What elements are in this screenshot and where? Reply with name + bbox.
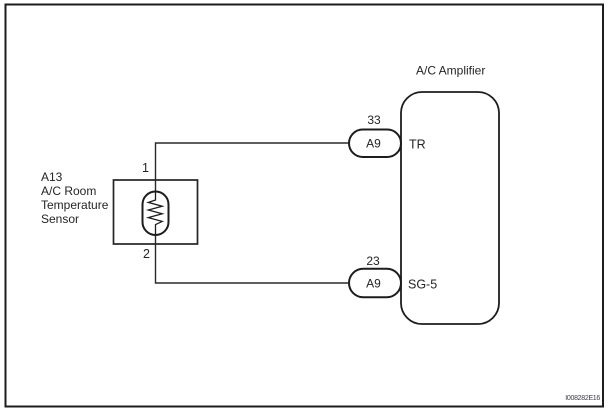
wire: sensor pin 2 to A9 pin 23 [156, 225, 350, 283]
label A13 / A/C Room Temperature Sensor [41, 170, 109, 226]
temperature sensor A13 box [114, 180, 198, 244]
svg-text:A9: A9 [366, 277, 381, 291]
connector A9 pin 23 (oval) [349, 269, 401, 298]
wire: sensor pin 1 to A9 pin 33 [156, 143, 350, 200]
svg-text:2: 2 [143, 247, 150, 261]
svg-text:A13: A13 [41, 170, 63, 184]
svg-text:1: 1 [142, 161, 149, 175]
svg-text:I008282E16: I008282E16 [565, 395, 600, 402]
svg-text:Sensor: Sensor [41, 212, 79, 226]
svg-text:SG-5: SG-5 [408, 277, 437, 291]
svg-text:23: 23 [366, 254, 380, 268]
thermistor element (zigzag in capsule) [143, 192, 169, 236]
svg-text:TR: TR [409, 138, 426, 152]
svg-text:A9: A9 [366, 137, 381, 151]
A/C amplifier block U1 [401, 92, 499, 324]
svg-text:A/C Room: A/C Room [41, 184, 96, 198]
connector A9 pin 33 (oval) [349, 130, 401, 158]
svg-text:Temperature: Temperature [41, 198, 109, 212]
svg-text:A/C Amplifier: A/C Amplifier [416, 64, 485, 78]
svg-text:33: 33 [367, 113, 381, 127]
